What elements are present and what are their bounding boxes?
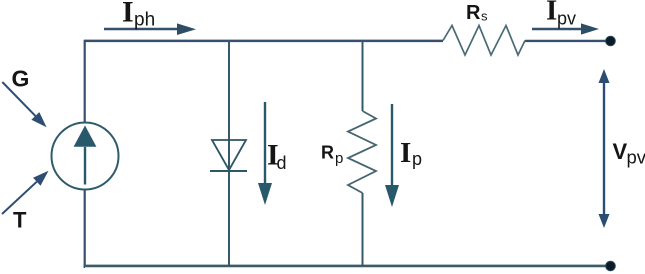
svg-text:p: p: [335, 150, 343, 167]
wire left vertical lower: [84, 190, 87, 267]
arrow Vpv double-headed: [599, 69, 610, 228]
terminal node bottom right: [606, 261, 616, 271]
svg-text:T: T: [13, 208, 27, 233]
resistor Rs: [443, 26, 525, 56]
wire left vertical upper: [84, 40, 86, 123]
terminal node top right: [606, 36, 616, 46]
wire Rp branch upper stub: [362, 41, 364, 112]
svg-text:V: V: [613, 139, 628, 164]
svg-text:pv: pv: [557, 9, 576, 29]
svg-text:I: I: [546, 0, 557, 27]
current source arrow: [74, 126, 97, 185]
current source circle: [52, 123, 119, 190]
arrow T to source: [2, 171, 49, 214]
svg-text:G: G: [12, 66, 30, 92]
svg-text:s: s: [481, 9, 488, 24]
arrow G to source: [2, 82, 46, 127]
svg-text:I: I: [400, 137, 411, 169]
wire diode branch: [228, 41, 230, 266]
svg-text:pv: pv: [627, 147, 645, 168]
wire bottom horizontal: [84, 265, 609, 268]
svg-text:p: p: [412, 149, 422, 169]
arrow Ip: [385, 104, 399, 207]
wire top right after Rs: [525, 40, 608, 42]
wire top left horizontal: [85, 40, 444, 43]
arrow Iph: [104, 23, 196, 35]
svg-text:R: R: [321, 143, 334, 163]
diode D: [210, 140, 247, 171]
wire Rp branch lower stub: [362, 193, 364, 266]
arrow Ipv: [532, 23, 599, 34]
svg-text:ph: ph: [134, 10, 155, 31]
svg-text:I: I: [122, 0, 134, 29]
arrow Id: [258, 102, 272, 205]
svg-text:d: d: [277, 153, 287, 173]
resistor Rp: [348, 111, 376, 193]
svg-text:R: R: [466, 2, 481, 24]
